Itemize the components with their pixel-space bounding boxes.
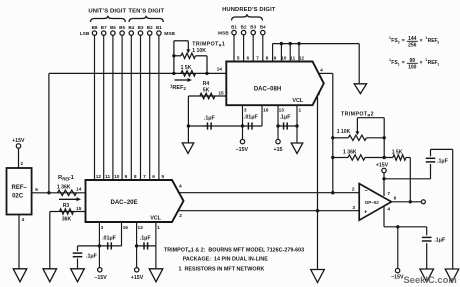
svg-text:14: 14 bbox=[217, 66, 223, 72]
svg-text:6: 6 bbox=[394, 196, 397, 202]
svg-text:PACKAGE: 14 PIN DUAL IN-LINE: PACKAGE: 14 PIN DUAL IN-LINE bbox=[183, 257, 269, 263]
svg-text:1: 1 bbox=[398, 63, 400, 67]
svg-text:B8: B8 bbox=[92, 25, 98, 30]
svg-text:3: 3 bbox=[352, 205, 355, 211]
svg-text:B3: B3 bbox=[250, 25, 256, 30]
svg-text:2: 2 bbox=[437, 41, 439, 45]
svg-text:REF: REF bbox=[428, 60, 438, 66]
svg-text:B4: B4 bbox=[260, 25, 266, 30]
svg-text:8: 8 bbox=[134, 174, 137, 180]
svg-text:R3: R3 bbox=[63, 203, 70, 209]
svg-text:−15V: −15V bbox=[236, 147, 249, 153]
svg-text:12: 12 bbox=[299, 55, 305, 61]
svg-text:7: 7 bbox=[387, 191, 390, 197]
svg-text:100: 100 bbox=[408, 65, 417, 71]
svg-text:−15V: −15V bbox=[391, 275, 404, 281]
svg-text:16: 16 bbox=[263, 108, 269, 114]
svg-text:.1μF: .1μF bbox=[86, 254, 98, 260]
svg-text:TEN’S DIGIT: TEN’S DIGIT bbox=[128, 8, 164, 14]
svg-text:HUNDRED’S DIGIT: HUNDRED’S DIGIT bbox=[222, 7, 276, 13]
svg-text:9: 9 bbox=[125, 174, 128, 180]
svg-text:1 RESISTORS IN MFT NETWORK: 1 RESISTORS IN MFT NETWORK bbox=[179, 266, 265, 272]
svg-text:36K: 36K bbox=[62, 216, 72, 222]
svg-text:11: 11 bbox=[105, 174, 110, 180]
svg-text:2: 2 bbox=[352, 186, 355, 192]
svg-text:2: 2 bbox=[398, 41, 400, 45]
svg-text:MSB: MSB bbox=[218, 31, 229, 37]
svg-text:1 10K: 1 10K bbox=[192, 48, 206, 54]
svg-text:6: 6 bbox=[152, 174, 155, 180]
svg-text:2: 2 bbox=[20, 161, 23, 167]
svg-text:REF: REF bbox=[428, 38, 438, 44]
svg-text:+15V: +15V bbox=[131, 275, 144, 281]
svg-text:02C: 02C bbox=[12, 193, 24, 199]
svg-text:B3: B3 bbox=[138, 25, 144, 30]
svg-text:12: 12 bbox=[96, 174, 102, 180]
svg-text:TRIMPOTR1 & 2: BOURNS MFT MOD: TRIMPOTR1 & 2: BOURNS MFT MODEL 7126C-27… bbox=[164, 247, 304, 253]
svg-text:7: 7 bbox=[256, 55, 259, 61]
svg-text:5K: 5K bbox=[203, 87, 210, 93]
svg-text:+15V: +15V bbox=[12, 138, 25, 144]
svg-text:13: 13 bbox=[279, 108, 285, 114]
svg-text:DAC–20E: DAC–20E bbox=[110, 200, 137, 206]
svg-text:MSB: MSB bbox=[164, 31, 175, 37]
svg-text:DAC–08H: DAC–08H bbox=[254, 86, 281, 92]
svg-text:B6: B6 bbox=[110, 25, 116, 30]
svg-text:OP–02: OP–02 bbox=[365, 200, 380, 205]
svg-text:10: 10 bbox=[114, 174, 120, 180]
svg-text:3: 3 bbox=[244, 108, 247, 114]
svg-text:8: 8 bbox=[266, 55, 269, 61]
svg-text:.1μF: .1μF bbox=[140, 236, 152, 242]
svg-text:REF–: REF– bbox=[12, 185, 28, 191]
svg-text:1 5K: 1 5K bbox=[181, 65, 192, 71]
svg-text:9: 9 bbox=[274, 55, 277, 61]
svg-text:1 10K: 1 10K bbox=[337, 129, 351, 135]
svg-text:SeekIC.com: SeekIC.com bbox=[404, 274, 457, 285]
svg-text:×: × bbox=[420, 38, 423, 44]
svg-text:.1μF: .1μF bbox=[437, 158, 449, 164]
svg-text:13: 13 bbox=[138, 225, 144, 231]
svg-text:LSB: LSB bbox=[80, 31, 90, 37]
svg-text:6: 6 bbox=[246, 55, 249, 61]
svg-text:1 36K: 1 36K bbox=[343, 150, 357, 156]
svg-text:7: 7 bbox=[143, 174, 146, 180]
svg-text:.01μF: .01μF bbox=[102, 236, 117, 242]
svg-text:VCL: VCL bbox=[150, 215, 161, 221]
svg-text:5: 5 bbox=[161, 174, 164, 180]
svg-text:11: 11 bbox=[290, 55, 295, 61]
svg-text:UNIT’S DIGIT: UNIT’S DIGIT bbox=[88, 8, 126, 14]
svg-text:B1: B1 bbox=[231, 25, 237, 30]
svg-text:+15V: +15V bbox=[376, 163, 389, 169]
svg-text:1 36K: 1 36K bbox=[57, 185, 71, 191]
svg-text:4: 4 bbox=[22, 217, 25, 223]
svg-text:5: 5 bbox=[237, 55, 240, 61]
svg-text:=: = bbox=[402, 60, 405, 66]
svg-text:.1μF: .1μF bbox=[204, 116, 216, 122]
svg-text:4: 4 bbox=[387, 207, 390, 213]
svg-text:1 5K: 1 5K bbox=[392, 150, 403, 156]
svg-text:B1: B1 bbox=[156, 25, 162, 30]
svg-text:1: 1 bbox=[157, 225, 160, 231]
svg-text:B2: B2 bbox=[241, 25, 247, 30]
svg-text:16: 16 bbox=[123, 225, 129, 231]
svg-text:VCL: VCL bbox=[292, 98, 303, 104]
svg-text:4: 4 bbox=[179, 184, 182, 190]
svg-text:B5: B5 bbox=[119, 25, 125, 30]
svg-text:−15V: −15V bbox=[94, 275, 107, 281]
svg-text:B2: B2 bbox=[147, 25, 153, 30]
svg-text:2: 2 bbox=[179, 213, 182, 219]
svg-text:.1μF: .1μF bbox=[434, 238, 446, 244]
svg-text:3: 3 bbox=[101, 225, 104, 231]
svg-text:R4: R4 bbox=[203, 81, 210, 87]
svg-text:.01μF: .01μF bbox=[244, 115, 259, 121]
svg-text:1: 1 bbox=[298, 108, 301, 114]
svg-text:B4: B4 bbox=[128, 25, 134, 30]
svg-text:10: 10 bbox=[281, 55, 287, 61]
svg-text:RREF1: RREF1 bbox=[58, 175, 75, 181]
svg-text:14: 14 bbox=[76, 187, 82, 193]
svg-text:=: = bbox=[402, 38, 405, 44]
svg-text:B7: B7 bbox=[101, 25, 107, 30]
svg-text:+15: +15 bbox=[274, 147, 283, 153]
svg-text:×: × bbox=[420, 60, 423, 66]
svg-text:256: 256 bbox=[408, 43, 417, 49]
svg-text:2: 2 bbox=[317, 91, 320, 97]
svg-text:4: 4 bbox=[320, 68, 323, 74]
svg-text:15: 15 bbox=[76, 206, 82, 212]
svg-text:.1μF: .1μF bbox=[280, 115, 292, 121]
svg-text:1: 1 bbox=[437, 63, 439, 67]
